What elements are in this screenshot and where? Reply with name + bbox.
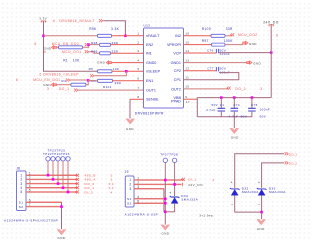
svg-text:3: 3 xyxy=(137,49,139,53)
svg-text:C77: C77 xyxy=(207,67,214,71)
svg-text:R101: R101 xyxy=(103,85,112,89)
J9 S2 wire xyxy=(134,202,165,204)
svg-text:13: 13 xyxy=(185,58,189,62)
svg-text:GND: GND xyxy=(257,227,265,231)
svg-text:DI_2: DI_2 xyxy=(85,190,94,194)
wire 3.3V rail xyxy=(44,21,98,71)
port DI_1 xyxy=(181,178,185,181)
svg-text:VCP: VCP xyxy=(173,51,181,55)
wire MCU_EN_DO1 to junction xyxy=(70,79,88,81)
svg-text:S2: S2 xyxy=(19,205,24,209)
wire R99 to pin3 xyxy=(111,52,144,54)
svg-text:6: 6 xyxy=(44,50,46,54)
wire J9 pin3 down to bus xyxy=(163,189,165,212)
svg-text:GND: GND xyxy=(253,62,261,66)
power port GND for VPROPI xyxy=(243,41,249,45)
svg-text:4: 4 xyxy=(212,178,214,182)
port DO_1 right xyxy=(285,152,289,155)
ground for D32 D33 xyxy=(261,212,263,219)
port MCU_DO2 xyxy=(231,33,235,36)
svg-text:DRV8816_NFAULT: DRV8816_NFAULT xyxy=(59,19,94,23)
port 485_A xyxy=(75,178,79,181)
wire junction to R101 xyxy=(88,79,97,81)
svg-text:MCU_DO2: MCU_DO2 xyxy=(238,33,258,37)
wire D32 to bus xyxy=(234,196,236,213)
svg-text:12: 12 xyxy=(185,67,189,71)
svg-text:14: 14 xyxy=(185,49,189,53)
resistor R96 3.3K xyxy=(98,34,112,37)
power port GND for GND1 xyxy=(247,61,253,65)
svg-text:100nF: 100nF xyxy=(260,108,271,112)
svg-text:24V_DO: 24V_DO xyxy=(188,183,203,187)
resistor R97 100K xyxy=(212,43,226,46)
svg-text:GND0: GND0 xyxy=(146,61,156,65)
svg-text:DRV8816_nSLEEP: DRV8816_nSLEEP xyxy=(43,73,79,77)
svg-text:TP22TP24TP26: TP22TP24TP26 xyxy=(43,152,70,156)
svg-text:9: 9 xyxy=(185,95,187,99)
svg-text:U13: U13 xyxy=(144,24,151,28)
capacitor C76 100nF 50V xyxy=(216,49,218,53)
svg-text:3.3K: 3.3K xyxy=(111,27,120,31)
J9 S1 wire xyxy=(134,198,165,200)
wire bottom bus xyxy=(197,116,252,118)
svg-text:C75: C75 xyxy=(251,103,258,107)
wire D34 to bus xyxy=(174,204,176,212)
svg-text:24V_DO: 24V_DO xyxy=(263,20,279,24)
svg-text:11: 11 xyxy=(185,76,189,80)
svg-text:R97: R97 xyxy=(202,39,209,43)
svg-text:R99: R99 xyxy=(91,50,98,54)
wire R1 to EN2 junction xyxy=(83,45,89,48)
node C1 top xyxy=(220,96,223,99)
svg-text:6: 6 xyxy=(35,42,37,46)
wire 24V to D34 xyxy=(174,184,176,196)
svg-text:2: 2 xyxy=(137,40,139,44)
wire DO_1 route xyxy=(235,154,284,188)
svg-text:C76: C76 xyxy=(207,49,214,53)
svg-text:4: 4 xyxy=(111,190,113,194)
svg-text:4.7uF: 4.7uF xyxy=(229,114,239,118)
diode D34 SMAJ33A xyxy=(171,198,178,204)
svg-text:3+1.9ea.: 3+1.9ea. xyxy=(199,213,214,217)
resistor R99 33R xyxy=(100,52,111,55)
svg-text:GND: GND xyxy=(231,136,239,140)
J8 S1 S2 wires to GND xyxy=(26,201,62,203)
connector J9 body xyxy=(125,176,134,207)
wire DO_1 to pin7 xyxy=(78,89,143,91)
svg-text:IN2: IN2 xyxy=(175,34,181,38)
svg-text:50V: 50V xyxy=(241,114,248,118)
svg-text:R4: R4 xyxy=(62,79,67,83)
svg-text:6: 6 xyxy=(137,77,139,81)
resistor R5 10K xyxy=(98,70,113,73)
svg-text:J9: J9 xyxy=(125,170,129,174)
capacitor C74 4.7uF 50V xyxy=(233,98,235,109)
svg-text:10K: 10K xyxy=(113,67,120,71)
J8 pin wires xyxy=(26,174,78,176)
svg-text:GND1: GND1 xyxy=(171,61,181,65)
wire VBB PPAD xyxy=(184,98,198,100)
svg-text:R96: R96 xyxy=(89,27,96,31)
svg-text:GND: GND xyxy=(126,127,134,131)
wire R4 to EN1 junction xyxy=(86,80,88,84)
svg-text:CP2: CP2 xyxy=(174,69,181,73)
wire 24V rail xyxy=(270,25,272,98)
svg-text:EN1: EN1 xyxy=(146,79,153,83)
op-amp U13 DRV8816 body xyxy=(144,28,184,108)
svg-text:GND: GND xyxy=(97,61,105,65)
svg-text:TP27TP28: TP27TP28 xyxy=(160,152,178,156)
svg-text:4: 4 xyxy=(137,58,139,62)
svg-text:VPROPI: VPROPI xyxy=(167,43,181,47)
svg-text:MCU_EN_DO1: MCU_EN_DO1 xyxy=(33,78,61,82)
svg-text:MCU_DO1: MCU_DO1 xyxy=(62,50,82,54)
resistor R1 10K xyxy=(57,46,59,48)
wire DO_2 route xyxy=(262,163,284,188)
svg-text:6: 6 xyxy=(276,34,278,38)
test point TP27 xyxy=(163,158,167,162)
wire D32-D33 bus xyxy=(235,211,262,213)
J9 pin2 wire xyxy=(134,183,181,185)
svg-text:33R: 33R xyxy=(115,81,122,85)
svg-text:DO_2: DO_2 xyxy=(235,87,246,91)
wire pin12 to C77 xyxy=(184,70,217,72)
wire C76 to 24V rail xyxy=(219,52,271,54)
wire nSLEEP port to junction xyxy=(94,71,126,75)
node NFAULT junction xyxy=(124,35,127,38)
svg-text:+: + xyxy=(258,181,261,185)
svg-text:GND: GND xyxy=(58,236,66,240)
svg-text:17: 17 xyxy=(186,100,190,104)
svg-text:CP1: CP1 xyxy=(174,78,181,82)
svg-text:A1024WRA-S-5PNLNG2T00R: A1024WRA-S-5PNLNG2T00R xyxy=(4,218,59,222)
resistor R98 33R xyxy=(100,43,111,46)
wire R101 to pin6 xyxy=(113,80,144,82)
svg-text:S2: S2 xyxy=(127,201,132,205)
svg-text:5: 5 xyxy=(20,190,22,194)
svg-text:3.3V: 3.3V xyxy=(39,16,47,20)
wire MCU_EN_DO2 to junction xyxy=(87,44,89,46)
svg-text:nFAULT: nFAULT xyxy=(146,34,160,38)
svg-text:OUT1: OUT1 xyxy=(146,89,156,93)
svg-text:33R: 33R xyxy=(226,27,233,31)
svg-text:A1024WRA-S-03P: A1024WRA-S-03P xyxy=(125,212,159,216)
node S2 junction xyxy=(60,205,63,208)
wire pin16 to R100 xyxy=(184,35,212,37)
svg-text:6: 6 xyxy=(53,19,55,23)
svg-text:+: + xyxy=(169,191,172,195)
svg-text:3: 3 xyxy=(47,87,49,91)
svg-text:S1: S1 xyxy=(19,200,24,204)
ground for caps xyxy=(233,117,235,129)
resistor R100 33R xyxy=(211,34,225,37)
svg-text:PPAD: PPAD xyxy=(171,99,181,103)
test points TP22-TP26 xyxy=(46,157,50,161)
svg-text:MCU_EN_DO2: MCU_EN_DO2 xyxy=(52,42,80,46)
port DO_2 right edge xyxy=(285,161,289,164)
svg-text:50V: 50V xyxy=(260,114,267,118)
svg-text:C74: C74 xyxy=(233,103,240,107)
svg-text:10K: 10K xyxy=(73,59,80,63)
test point TP28 xyxy=(172,158,176,162)
node C75 top xyxy=(251,96,254,99)
svg-text:EN2: EN2 xyxy=(146,43,153,47)
wire 3.3V to R96 xyxy=(44,35,98,37)
ground for SENSE xyxy=(126,119,135,125)
port DO_2 right xyxy=(227,87,231,90)
svg-text:−: − xyxy=(258,202,261,206)
svg-text:6: 6 xyxy=(16,78,18,82)
port DI_2 xyxy=(75,191,79,194)
svg-text:15: 15 xyxy=(185,40,189,44)
svg-text:DO_2: DO_2 xyxy=(289,162,297,166)
svg-text:SENSE: SENSE xyxy=(146,98,159,102)
svg-text:S1: S1 xyxy=(127,197,132,201)
wire C77 to pin11 xyxy=(184,73,239,80)
svg-text:10: 10 xyxy=(185,85,189,89)
svg-text:4.7uF: 4.7uF xyxy=(206,108,216,112)
wire junction to R98 xyxy=(89,44,100,46)
node C74 top xyxy=(233,96,236,99)
svg-text:R5: R5 xyxy=(89,67,94,71)
node EN2 junction xyxy=(87,43,90,46)
svg-text:DI_1: DI_1 xyxy=(188,178,196,182)
svg-text:5: 5 xyxy=(137,67,139,71)
wire pin10 to DO_2 port xyxy=(184,88,229,90)
svg-text:−: − xyxy=(231,202,234,206)
svg-text:R100: R100 xyxy=(202,27,211,31)
J9 pin1 wire xyxy=(134,179,184,181)
wire pin15 to R97 xyxy=(184,44,212,46)
power label 24V_DO on J9 pin2 xyxy=(182,183,184,187)
wire pin14 to C76 xyxy=(184,52,217,54)
svg-text:J8: J8 xyxy=(16,166,20,170)
wire R100 to MCU_DO2 port xyxy=(225,35,232,37)
wire NFAULT to R96 node xyxy=(103,21,125,36)
wire R5 to pin5 xyxy=(112,70,144,72)
svg-text:SMAJ33A: SMAJ33A xyxy=(269,190,286,194)
port DO_2 J8 xyxy=(75,182,79,185)
node C76/24V junction xyxy=(270,51,273,54)
ground below J9 xyxy=(161,225,170,231)
svg-text:3: 3 xyxy=(260,87,262,91)
svg-text:GND: GND xyxy=(162,231,170,235)
wire R97 to GND xyxy=(225,44,243,46)
svg-text:1: 1 xyxy=(137,32,139,36)
node EN1 junction xyxy=(87,79,90,82)
diode D33 SMAJ33A xyxy=(258,190,265,196)
capacitor C1 4.7uF 50V xyxy=(220,98,222,109)
svg-text:GND: GND xyxy=(249,42,257,46)
wire pin13 to GND xyxy=(184,62,248,64)
svg-text:OUT2: OUT2 xyxy=(171,87,181,91)
wire MCU_DO1 to R99 xyxy=(88,52,99,54)
svg-text:SMAJ33A: SMAJ33A xyxy=(242,190,259,194)
wire R98 to pin2 xyxy=(111,44,144,46)
svg-text:+: + xyxy=(230,181,233,185)
ground for J8 shield xyxy=(57,230,66,236)
wire bus to D34 xyxy=(165,211,174,213)
port 485_B xyxy=(75,174,79,177)
svg-text:IN1: IN1 xyxy=(146,52,152,56)
wire SENSE to GND xyxy=(130,98,144,100)
svg-text:7: 7 xyxy=(137,86,139,90)
node 3.3V/R96 junction xyxy=(42,35,45,38)
svg-text:8: 8 xyxy=(137,95,139,99)
wire R96 to pin1 xyxy=(112,35,144,37)
resistor R4 10K xyxy=(57,84,71,86)
svg-text:DRV8816PWPR: DRV8816PWPR xyxy=(135,112,164,116)
capacitor C77 100nF 50V xyxy=(216,67,218,71)
wire D33 to bus xyxy=(261,196,263,213)
connector J8 body xyxy=(17,171,27,211)
svg-text:2: 2 xyxy=(129,183,131,187)
wire GND vertical below J9 xyxy=(164,180,166,225)
wire VBB top bus xyxy=(197,97,271,99)
J9 pin3 wire xyxy=(134,188,164,190)
svg-text:3: 3 xyxy=(129,187,131,191)
svg-text:DO_1: DO_1 xyxy=(59,87,70,91)
diode D32 SMAJ33A xyxy=(231,190,238,196)
svg-text:R1: R1 xyxy=(63,59,68,63)
svg-text:nSLEEP: nSLEEP xyxy=(146,70,161,74)
node nSLEEP junction xyxy=(125,70,128,73)
svg-text:50V: 50V xyxy=(212,103,219,107)
svg-text:1: 1 xyxy=(129,178,131,182)
resistor R101 33R on EN1 xyxy=(98,79,113,82)
capacitor C75 100nF 50V xyxy=(251,98,253,109)
svg-text:DO_1: DO_1 xyxy=(289,152,297,156)
svg-text:16: 16 xyxy=(185,32,189,36)
wire GND to pin4 xyxy=(112,62,144,64)
node bus GND junction xyxy=(260,211,263,214)
port DO_1 J8 xyxy=(75,186,79,189)
svg-text:SMAJ33A: SMAJ33A xyxy=(181,198,198,202)
svg-text:C1: C1 xyxy=(220,103,225,107)
svg-text:100K: 100K xyxy=(224,39,234,43)
svg-text:6: 6 xyxy=(40,73,42,77)
